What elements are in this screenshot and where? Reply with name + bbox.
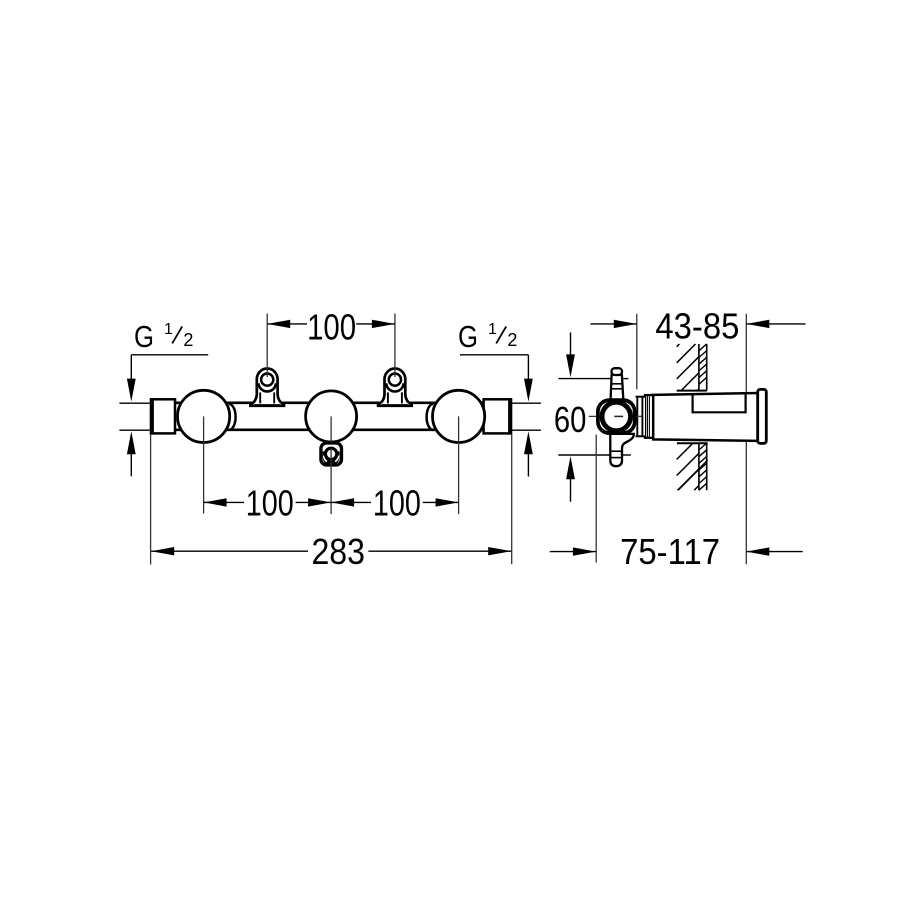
node body main cylinder bbox=[653, 393, 758, 441]
svg-text:43-85: 43-85 bbox=[655, 306, 739, 347]
svg-text:283: 283 bbox=[311, 531, 365, 572]
wire 60 extension top bbox=[559, 378, 629, 380]
node bottom mounting lug bbox=[321, 443, 342, 466]
dim 100 bottom-left bbox=[204, 483, 332, 524]
wire left extension line bar top bbox=[119, 402, 150, 404]
node body end flange bbox=[758, 389, 767, 443]
wire right extension line bar top bbox=[511, 402, 541, 404]
svg-text:100: 100 bbox=[307, 306, 356, 347]
node center line middle valve bbox=[330, 416, 332, 514]
node bracket between plate and collar bbox=[636, 397, 645, 437]
wall band bottom boundary bbox=[677, 442, 708, 444]
svg-text:1: 1 bbox=[488, 321, 497, 338]
wall finished-surface line bbox=[698, 344, 700, 490]
svg-text:2: 2 bbox=[183, 330, 193, 350]
wall plaster tick hatch bbox=[678, 344, 708, 490]
node valve body circle left bbox=[178, 390, 230, 442]
svg-text:60: 60 bbox=[554, 399, 587, 440]
wire extension line 283 left bbox=[150, 434, 152, 565]
node boss arc left of right valve bbox=[427, 404, 434, 430]
node mounting lug right (top) bbox=[378, 369, 412, 406]
label G 1/2 right bbox=[458, 319, 517, 354]
node valve body circle right bbox=[433, 390, 485, 442]
wire bar tube top edge bbox=[175, 401, 484, 404]
node handle plate inner line bbox=[599, 401, 634, 432]
label G 1/2 left bbox=[134, 319, 193, 354]
wire 60 arrow top bbox=[566, 333, 575, 378]
wire left extension line bar bottom bbox=[119, 429, 150, 431]
wire extension line 75-117 left bbox=[595, 435, 597, 563]
wire right dim arrow bottom bbox=[524, 431, 533, 476]
wire 60 extension bottom bbox=[558, 454, 631, 456]
node valve body circle middle bbox=[306, 391, 357, 442]
svg-text:75-117: 75-117 bbox=[620, 531, 720, 572]
wire extension line lug left bbox=[266, 314, 268, 378]
node center dash left of plate bbox=[589, 415, 597, 417]
wire extension line 43-85 left bbox=[636, 314, 638, 390]
wall masonry hatch bbox=[677, 344, 699, 490]
svg-text:G: G bbox=[134, 319, 154, 354]
dim 283 bbox=[151, 531, 511, 572]
svg-text:100: 100 bbox=[373, 483, 421, 524]
node center line left valve bbox=[203, 416, 205, 513]
wire extension line 283 right bbox=[511, 434, 513, 564]
node handle plate bbox=[597, 399, 635, 433]
node mounting lug left (top) bbox=[250, 369, 284, 406]
wire 60 arrow bottom bbox=[566, 456, 575, 502]
svg-text:100: 100 bbox=[246, 483, 294, 524]
dim 100 bottom-right bbox=[331, 483, 459, 524]
wire G1/2 leader line left bbox=[131, 354, 208, 356]
node knurled collar bbox=[645, 395, 653, 438]
node body inset panel bbox=[693, 393, 746, 412]
wall back line bbox=[706, 344, 708, 490]
wire left dim arrow bottom bbox=[127, 431, 136, 476]
node handle lower arm bbox=[610, 434, 634, 466]
node handle ring bbox=[602, 402, 631, 431]
node right end cap G1/2 bbox=[484, 398, 511, 435]
wire left dim arrow top bbox=[127, 355, 136, 402]
svg-text:2: 2 bbox=[507, 330, 517, 350]
wire bar tube bottom edge bbox=[175, 428, 484, 431]
wire G1/2 leader line right bbox=[460, 354, 528, 356]
wire extension line lug right bbox=[394, 314, 396, 378]
node left end cap G1/2 bbox=[152, 398, 175, 435]
dim 43-85 bbox=[591, 306, 806, 347]
wire right extension line bar bottom bbox=[511, 429, 541, 431]
dim 75-117 bbox=[550, 531, 803, 572]
wire right dim arrow top bbox=[524, 355, 533, 402]
node handle upper arm bbox=[611, 368, 624, 399]
wire extension line right of side view bbox=[745, 314, 747, 564]
wall band top boundary bbox=[677, 390, 707, 392]
dim 100 top bbox=[267, 306, 395, 347]
svg-text:1: 1 bbox=[164, 321, 173, 338]
node center dash right of plate bbox=[636, 415, 641, 417]
node center line right valve bbox=[458, 416, 460, 514]
node boss arc right of left valve bbox=[229, 404, 236, 430]
node handle center dash bbox=[614, 415, 623, 417]
svg-text:G: G bbox=[458, 319, 478, 354]
